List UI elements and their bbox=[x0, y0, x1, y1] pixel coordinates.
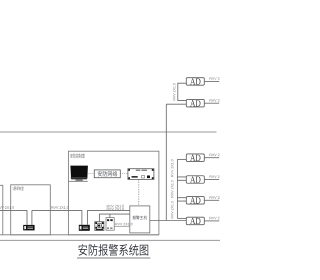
keypad 2 buttons bbox=[83, 227, 88, 229]
branch wires B3 in-out bbox=[177, 198, 186, 201]
wire A label clipped at left bbox=[0, 206, 14, 209]
wire A left segment bbox=[0, 209, 27, 211]
branch wires B2 in-out bbox=[177, 177, 186, 180]
keypad 1 buttons bbox=[27, 227, 33, 229]
stacked label wire B bbox=[107, 208, 124, 211]
DVR button outline bbox=[142, 176, 145, 179]
AD module B2 bbox=[186, 176, 204, 184]
monitor screen bbox=[70, 166, 88, 178]
floor separator line bbox=[0, 131, 217, 133]
DVR top vents bbox=[136, 170, 147, 171]
riser label B1 bbox=[171, 160, 174, 177]
wire bus to AD T2 bbox=[166, 103, 186, 105]
bottom border line bbox=[0, 239, 220, 241]
ground floor box bottoms line bbox=[0, 234, 159, 236]
DVR dark button bbox=[147, 176, 150, 179]
keypad 2 body bbox=[79, 225, 90, 231]
output wire B1 bbox=[204, 157, 219, 159]
DVR corner screws bbox=[128, 169, 153, 179]
room box security control room bbox=[68, 151, 158, 235]
detector bottom bar bbox=[96, 229, 103, 230]
monitor lower bezel bbox=[71, 177, 88, 179]
AD module B4 bbox=[186, 217, 204, 225]
output label B3 bbox=[210, 196, 227, 199]
wire C label bbox=[115, 223, 132, 226]
label security control room bbox=[70, 153, 85, 158]
title text bbox=[78, 244, 148, 256]
keypad 1 body bbox=[23, 225, 34, 231]
title underline bbox=[77, 257, 150, 259]
wire B bbox=[99, 214, 129, 222]
detector corner dots bbox=[95, 222, 103, 228]
keypad 1 drop legs bbox=[27, 210, 32, 225]
output wire B3 bbox=[204, 199, 219, 201]
output label T2 bbox=[210, 99, 227, 102]
detector outline bbox=[95, 222, 104, 231]
siren drop leg bbox=[109, 214, 111, 218]
output label B4 bbox=[210, 217, 227, 220]
branch wire B4 in bbox=[177, 217, 186, 219]
AD module T2 bbox=[186, 99, 204, 107]
alarm host box bbox=[130, 206, 150, 233]
monitor stand bbox=[75, 179, 83, 181]
wire C panel to alarm host bbox=[114, 225, 130, 227]
stacked label wire A bbox=[107, 205, 124, 208]
output label B1 bbox=[210, 154, 227, 157]
panel top blocks bbox=[107, 219, 113, 221]
output wire T2 bbox=[204, 102, 219, 104]
AD module B1 bbox=[186, 154, 204, 162]
dashed link network to DVR bbox=[120, 172, 128, 174]
chain wire T1-T2 bbox=[178, 83, 187, 100]
riser label B3 bbox=[171, 201, 174, 218]
riser bus vertical bbox=[165, 104, 167, 220]
dashed link monitor to network bbox=[89, 172, 95, 174]
branch wire B1 bbox=[177, 158, 186, 160]
panel box bbox=[106, 218, 114, 231]
output label B2 bbox=[210, 175, 227, 178]
wire A mid segment bbox=[32, 209, 82, 211]
DVR slot bbox=[132, 176, 138, 178]
monitor base bbox=[69, 181, 89, 182]
label 1F security room bbox=[13, 186, 24, 190]
detector circle bbox=[97, 223, 101, 227]
room box clipped at left edge bbox=[0, 185, 3, 235]
label alarm host bbox=[132, 216, 147, 220]
wire alarm host to AD B4 bbox=[150, 220, 187, 222]
keypad 2 screen bbox=[80, 226, 82, 229]
keypad 1 screen bbox=[24, 226, 26, 229]
riser label B2 bbox=[171, 180, 174, 197]
room box 1F security room bbox=[11, 185, 51, 235]
output wire B4 bbox=[204, 220, 219, 222]
security network box bbox=[94, 170, 120, 178]
label security network bbox=[98, 171, 117, 176]
detector center dot bbox=[98, 224, 100, 226]
output wire B2 bbox=[204, 179, 219, 181]
riser label T bbox=[173, 83, 176, 100]
DVR box bbox=[128, 169, 154, 180]
AD module B3 bbox=[186, 197, 204, 205]
wire A right segment bbox=[87, 209, 129, 211]
output label T1 bbox=[210, 77, 227, 80]
panel bottom marks bbox=[107, 228, 113, 229]
chain vertical lower bbox=[176, 159, 178, 218]
output wire T1 bbox=[204, 80, 219, 82]
AD module T1 bbox=[186, 78, 204, 86]
keypad 2 drop legs bbox=[82, 210, 88, 224]
dashed link DVR to alarm host bbox=[138, 179, 140, 206]
wire A label mid bbox=[51, 206, 68, 209]
